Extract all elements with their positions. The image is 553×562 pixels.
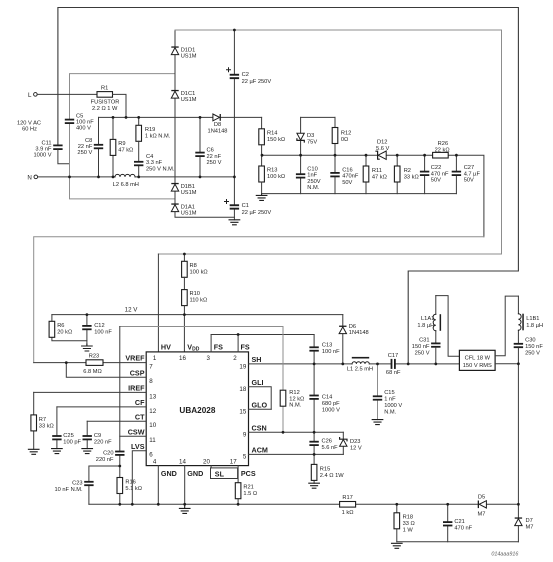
svg-text:100 nF: 100 nF: [322, 349, 340, 355]
svg-text:C22: C22: [431, 165, 441, 171]
svg-text:1nF: 1nF: [307, 173, 317, 179]
svg-text:GLI: GLI: [252, 378, 264, 387]
svg-text:22 µF 250V: 22 µF 250V: [242, 210, 272, 216]
svg-text:US1M: US1M: [181, 54, 197, 60]
svg-text:33 Ω: 33 Ω: [403, 521, 415, 527]
svg-text:L1A1: L1A1: [421, 316, 434, 322]
resistor R12 zero ohm: [332, 117, 351, 155]
svg-text:250V: 250V: [307, 179, 320, 185]
wire N line right: [135, 176, 234, 178]
ground main below IC: [179, 504, 190, 513]
svg-text:50V: 50V: [431, 178, 441, 184]
pin 5 ACM: [243, 446, 343, 461]
svg-text:D7: D7: [526, 518, 533, 524]
svg-text:33 kΩ: 33 kΩ: [39, 423, 54, 429]
svg-text:C2: C2: [242, 72, 249, 78]
svg-text:1000 V: 1000 V: [384, 403, 402, 409]
ground below R13: [256, 194, 267, 201]
wire outer loop C11 to lamp return: [58, 8, 519, 364]
ground below C9: [82, 449, 93, 454]
capacitor C8: [77, 117, 103, 176]
svg-text:ACM: ACM: [252, 446, 268, 455]
pin 12 CF: [57, 398, 157, 415]
svg-text:16: 16: [179, 355, 186, 362]
svg-text:13: 13: [149, 393, 156, 400]
diode bridge column wire: [175, 30, 234, 217]
wire bottom rail: [89, 503, 519, 505]
wire feedback junction line: [262, 155, 484, 237]
capacitor C5: [65, 114, 94, 132]
svg-text:150 kΩ: 150 kΩ: [267, 137, 285, 143]
svg-text:R9: R9: [118, 141, 125, 147]
svg-text:HV: HV: [161, 343, 171, 352]
svg-text:50V: 50V: [342, 180, 352, 186]
svg-text:2.2 Ω 1 W: 2.2 Ω 1 W: [92, 106, 118, 112]
zener D23: [340, 432, 362, 454]
capacitor C20: [96, 327, 125, 478]
svg-text:R8: R8: [190, 263, 197, 269]
svg-text:FS: FS: [214, 343, 223, 352]
resistor R7: [31, 392, 54, 449]
capacitor C2: [227, 68, 272, 85]
svg-text:5.6 nF: 5.6 nF: [322, 445, 339, 451]
resistor R1 FUSISTOR: [91, 85, 126, 117]
svg-text:9: 9: [243, 432, 247, 439]
svg-text:22 µF 250V: 22 µF 250V: [242, 79, 272, 85]
svg-text:R6: R6: [57, 323, 64, 329]
svg-text:PCS: PCS: [241, 469, 256, 478]
pin 6 LVS: [131, 442, 153, 504]
ground below C12: [82, 344, 93, 351]
svg-text:1 kΩ: 1 kΩ: [342, 510, 354, 516]
svg-text:D8: D8: [214, 122, 221, 128]
svg-text:4: 4: [153, 459, 157, 466]
svg-text:L: L: [28, 92, 32, 99]
resistor R19: [136, 117, 171, 141]
wire top HV bus: [158, 30, 501, 254]
svg-text:C1: C1: [242, 203, 249, 209]
pin 2 FS: [211, 335, 314, 363]
resistor R10: [182, 277, 208, 352]
svg-text:C16: C16: [342, 167, 352, 173]
svg-text:15: 15: [239, 409, 246, 416]
wire HV pin feed: [157, 254, 159, 352]
wire AC side rail: [70, 74, 175, 199]
svg-text:014aaa916: 014aaa916: [491, 551, 518, 557]
svg-text:CT: CT: [135, 412, 145, 421]
svg-text:GLO: GLO: [252, 400, 268, 409]
svg-text:D12: D12: [377, 140, 387, 146]
svg-text:12 V: 12 V: [125, 306, 139, 313]
inductor L1B1: [518, 296, 543, 343]
svg-text:3: 3: [206, 355, 210, 362]
svg-text:C30: C30: [525, 338, 535, 344]
pin 1 HV: [153, 343, 171, 363]
svg-text:47 kΩ: 47 kΩ: [118, 147, 133, 153]
ground below R7: [28, 449, 39, 454]
diode D1C1: [171, 90, 196, 103]
capacitor C14: [309, 364, 340, 432]
svg-text:R11: R11: [372, 168, 382, 174]
svg-text:68 nF: 68 nF: [386, 370, 401, 376]
pin 15 GLO: [239, 400, 271, 415]
svg-text:1 kΩ N.M.: 1 kΩ N.M.: [145, 134, 171, 140]
svg-text:D1C1: D1C1: [181, 91, 196, 97]
wire lamp left filament loop: [436, 296, 460, 357]
svg-text:220 nF: 220 nF: [96, 457, 114, 463]
svg-text:D6: D6: [349, 324, 356, 330]
svg-text:US1M: US1M: [181, 190, 197, 196]
wire 12V rail: [52, 314, 343, 316]
svg-text:CSN: CSN: [252, 423, 267, 432]
diode D1B1: [171, 183, 196, 196]
svg-text:C26: C26: [322, 439, 332, 445]
pin 20 SL: [203, 459, 238, 479]
inductor L1A1: [417, 296, 441, 343]
pin 8 CSP: [66, 363, 153, 386]
resistor R17: [340, 495, 356, 516]
resistor R15: [311, 454, 344, 483]
svg-text:5.6 V: 5.6 V: [376, 146, 389, 152]
svg-text:US1M: US1M: [181, 97, 197, 103]
svg-text:60 Hz: 60 Hz: [22, 126, 37, 132]
svg-text:R1: R1: [101, 85, 108, 91]
pin 14 GND: [179, 459, 203, 505]
resistor R14: [259, 117, 285, 144]
capacitor C1: [225, 200, 272, 216]
svg-text:N.M.: N.M.: [307, 185, 319, 191]
svg-text:N.M.: N.M.: [384, 410, 396, 416]
pin 11 CSW: [120, 427, 156, 444]
svg-text:12: 12: [149, 408, 156, 415]
resistor R21: [235, 483, 257, 505]
svg-text:N.M.: N.M.: [289, 403, 301, 409]
svg-text:47 kΩ: 47 kΩ: [372, 174, 387, 180]
svg-text:C12: C12: [94, 323, 104, 329]
svg-text:D5: D5: [478, 494, 485, 500]
ground below R15: [309, 483, 320, 488]
capacitor C17: [386, 353, 401, 376]
resistor R6: [49, 315, 87, 341]
svg-text:SL: SL: [215, 469, 225, 478]
svg-text:150 nF: 150 nF: [525, 344, 543, 350]
svg-text:10: 10: [149, 422, 156, 429]
svg-text:100 nF: 100 nF: [94, 330, 112, 336]
svg-text:CF: CF: [135, 398, 145, 407]
capacitor C27: [452, 155, 481, 193]
svg-text:R13: R13: [267, 167, 277, 173]
svg-text:L1 2.5 mH: L1 2.5 mH: [347, 367, 373, 373]
svg-text:R14: R14: [267, 130, 277, 136]
svg-text:R15: R15: [320, 466, 330, 472]
svg-text:R19: R19: [145, 127, 155, 133]
svg-text:CSP: CSP: [130, 368, 145, 377]
svg-text:220 nF: 220 nF: [94, 440, 112, 446]
ground below C25: [52, 449, 63, 454]
svg-text:C25: C25: [63, 433, 73, 439]
svg-text:R7: R7: [39, 417, 46, 423]
diode D1A1: [171, 203, 196, 216]
svg-text:250 V: 250 V: [77, 150, 92, 156]
svg-text:L2 6.8 mH: L2 6.8 mH: [113, 182, 139, 188]
wire rectified bus: [99, 116, 262, 118]
svg-text:6.8 MΩ: 6.8 MΩ: [83, 369, 101, 375]
svg-text:1N4148: 1N4148: [349, 330, 369, 336]
pin 4 GND: [153, 459, 177, 505]
svg-text:5.1 kΩ: 5.1 kΩ: [125, 486, 142, 492]
svg-text:FUSISTOR: FUSISTOR: [91, 100, 120, 106]
svg-text:400 V: 400 V: [76, 126, 91, 132]
svg-text:11: 11: [149, 437, 156, 444]
pin 17 PCS: [230, 459, 256, 483]
svg-text:C23: C23: [72, 481, 82, 487]
svg-text:C15: C15: [384, 390, 394, 396]
pin 16 VDD: [179, 343, 200, 363]
svg-text:1.8 µH: 1.8 µH: [417, 323, 434, 329]
svg-text:680 pF: 680 pF: [322, 401, 340, 407]
svg-text:R17: R17: [342, 495, 352, 501]
svg-text:17: 17: [230, 459, 237, 466]
zener D3: [297, 117, 317, 155]
pin 13 IREF: [34, 384, 157, 401]
svg-text:470nF: 470nF: [342, 174, 359, 180]
svg-text:1 W: 1 W: [403, 528, 414, 534]
ground below R18: [392, 543, 403, 548]
wire bottom return: [397, 541, 519, 543]
svg-text:LVS: LVS: [131, 442, 145, 451]
capacitor C25: [52, 407, 81, 449]
SECTIONS INSERTED BELOW: [17, 8, 518, 364]
svg-text:75V: 75V: [307, 139, 317, 145]
svg-text:250 V: 250 V: [525, 351, 540, 357]
pin 3 FS: [206, 335, 223, 363]
svg-text:US1M: US1M: [181, 211, 197, 217]
svg-text:GND: GND: [161, 469, 177, 478]
svg-text:M7: M7: [526, 525, 534, 531]
svg-text:20 kΩ: 20 kΩ: [57, 330, 72, 336]
diode D8: [208, 114, 228, 134]
svg-text:R12: R12: [289, 390, 299, 396]
svg-text:1 nF: 1 nF: [384, 397, 396, 403]
label 120 V AC 60 Hz: [17, 120, 41, 132]
svg-text:N: N: [27, 174, 31, 181]
diode D7: [515, 517, 534, 541]
diode D5: [478, 494, 487, 517]
svg-text:C17: C17: [388, 353, 398, 359]
capacitor C16: [330, 155, 359, 193]
op-amp U1 UBA2028: [146, 352, 248, 466]
svg-text:C10: C10: [307, 166, 317, 172]
svg-text:50V: 50V: [464, 178, 474, 184]
wire DC rail C2 C1: [233, 30, 235, 220]
svg-text:R26: R26: [438, 141, 448, 147]
svg-text:7: 7: [149, 364, 153, 371]
capacitor C15: [373, 364, 403, 420]
capacitor C10: [296, 155, 321, 193]
wire bottom gnd line: [262, 193, 457, 195]
svg-text:C9: C9: [94, 433, 101, 439]
wire CSW to R12nm line: [120, 326, 283, 328]
svg-text:4.7 µF: 4.7 µF: [464, 171, 481, 177]
wire lamp to rectifier: [517, 364, 519, 518]
svg-text:R2: R2: [404, 168, 411, 174]
svg-text:R16: R16: [125, 479, 135, 485]
capacitor C9: [83, 421, 113, 448]
svg-text:250 V: 250 V: [415, 351, 430, 357]
svg-text:1.8 µH: 1.8 µH: [526, 323, 543, 329]
svg-text:C6: C6: [207, 147, 214, 153]
svg-text:10 nF N.M.: 10 nF N.M.: [54, 487, 83, 493]
resistor R12 not mounted: [280, 327, 304, 433]
svg-text:C20: C20: [103, 450, 113, 456]
pin 10 CT: [87, 412, 157, 429]
svg-text:C27: C27: [464, 165, 474, 171]
svg-text:1000 V: 1000 V: [322, 408, 340, 414]
wire lamp output line: [495, 363, 519, 365]
svg-text:D1D1: D1D1: [181, 47, 196, 53]
svg-text:C13: C13: [322, 343, 332, 349]
svg-text:250 V: 250 V: [207, 160, 222, 166]
capacitor C21: [443, 504, 473, 542]
wire SH line mid: [369, 363, 459, 365]
capacitor C13: [309, 335, 340, 364]
zener D12: [376, 140, 390, 160]
svg-text:C21: C21: [454, 519, 464, 525]
svg-text:100 pF: 100 pF: [63, 440, 81, 446]
svg-text:2: 2: [233, 355, 237, 362]
svg-text:R21: R21: [243, 485, 253, 491]
svg-text:IREF: IREF: [128, 384, 145, 393]
svg-text:C31: C31: [419, 338, 429, 344]
svg-text:150 nF: 150 nF: [412, 344, 430, 350]
resistor R13: [259, 145, 285, 194]
svg-text:19: 19: [239, 363, 246, 370]
capacitor C4: [134, 141, 175, 177]
diode D6: [339, 315, 369, 364]
svg-text:SH: SH: [252, 355, 262, 364]
svg-text:2.4 Ω 1W: 2.4 Ω 1W: [320, 473, 344, 479]
svg-text:8: 8: [149, 378, 153, 385]
lamp CFL box: [459, 350, 495, 370]
svg-text:250 V N.M.: 250 V N.M.: [146, 167, 175, 173]
node N terminal: [27, 174, 115, 181]
resistor R9: [110, 117, 133, 176]
wire lamp right filament loop: [495, 296, 519, 356]
svg-text:R23: R23: [89, 353, 99, 359]
inductor L2: [113, 174, 139, 187]
capacitor C26: [309, 432, 338, 454]
ground below C15: [372, 420, 383, 425]
wire VREF sense loop: [34, 237, 484, 363]
svg-text:110 kΩ: 110 kΩ: [190, 298, 208, 304]
svg-text:0Ω: 0Ω: [341, 137, 348, 143]
svg-text:470 nF: 470 nF: [431, 171, 449, 177]
svg-text:18: 18: [239, 386, 246, 393]
svg-text:1: 1: [153, 355, 157, 362]
resistor R8: [182, 254, 208, 277]
svg-text:3.3 nF: 3.3 nF: [146, 160, 163, 166]
svg-text:100 kΩ: 100 kΩ: [267, 174, 285, 180]
resistor R11: [363, 155, 387, 193]
resistor R2: [394, 155, 418, 193]
diode D1D1: [171, 46, 196, 59]
capacitor C12: [82, 315, 112, 345]
pin 7 VREF: [103, 354, 153, 371]
node L terminal: [28, 92, 97, 99]
svg-text:UBA2028: UBA2028: [179, 406, 215, 415]
svg-text:22 kΩ: 22 kΩ: [435, 147, 450, 153]
svg-text:D1A1: D1A1: [181, 204, 195, 210]
wire arch over D3 R12: [301, 116, 335, 118]
capacitor C31: [412, 338, 441, 364]
resistor R18: [394, 504, 415, 542]
pin 9 CSN: [243, 423, 343, 438]
svg-text:5: 5: [243, 454, 247, 461]
svg-text:D1B1: D1B1: [181, 184, 195, 190]
svg-text:R18: R18: [403, 515, 413, 521]
svg-text:D23: D23: [350, 439, 360, 445]
svg-text:L1B1: L1B1: [526, 316, 539, 322]
pin 18 GLI: [239, 378, 271, 409]
svg-text:150 V RMS: 150 V RMS: [463, 363, 492, 369]
svg-text:12 V: 12 V: [350, 446, 362, 452]
inductor L1: [347, 357, 373, 373]
svg-text:33 kΩ: 33 kΩ: [404, 174, 419, 180]
capacitor C22: [420, 155, 449, 193]
resistor R16: [117, 478, 142, 505]
capacitor C23: [54, 466, 119, 504]
resistor R26: [433, 141, 450, 158]
svg-text:1N4148: 1N4148: [208, 128, 228, 134]
capacitor C6: [195, 117, 221, 176]
svg-text:100 kΩ: 100 kΩ: [190, 269, 208, 275]
svg-text:FS: FS: [241, 343, 250, 352]
svg-text:GND: GND: [187, 469, 203, 478]
svg-text:M7: M7: [478, 512, 486, 518]
svg-text:22 nF: 22 nF: [207, 154, 222, 160]
pin 19 SH: [239, 355, 352, 370]
capacitor C30: [514, 338, 544, 364]
svg-text:VREF: VREF: [125, 354, 145, 363]
svg-text:470 nF: 470 nF: [454, 526, 472, 532]
svg-text:1000 V: 1000 V: [33, 152, 51, 158]
svg-text:R10: R10: [190, 291, 200, 297]
ground below C1: [229, 220, 240, 225]
svg-text:CFL 18 W: CFL 18 W: [465, 355, 491, 361]
svg-text:14: 14: [179, 459, 186, 466]
capacitor C11: [33, 140, 69, 163]
svg-text:C14: C14: [322, 395, 332, 401]
resistor R23: [34, 353, 103, 375]
svg-text:CSW: CSW: [128, 427, 145, 436]
svg-text:D3: D3: [307, 133, 314, 139]
svg-text:R12: R12: [341, 130, 351, 136]
svg-text:1.5 Ω: 1.5 Ω: [243, 491, 257, 497]
svg-text:12 kΩ: 12 kΩ: [289, 396, 304, 402]
svg-text:20: 20: [203, 459, 210, 466]
